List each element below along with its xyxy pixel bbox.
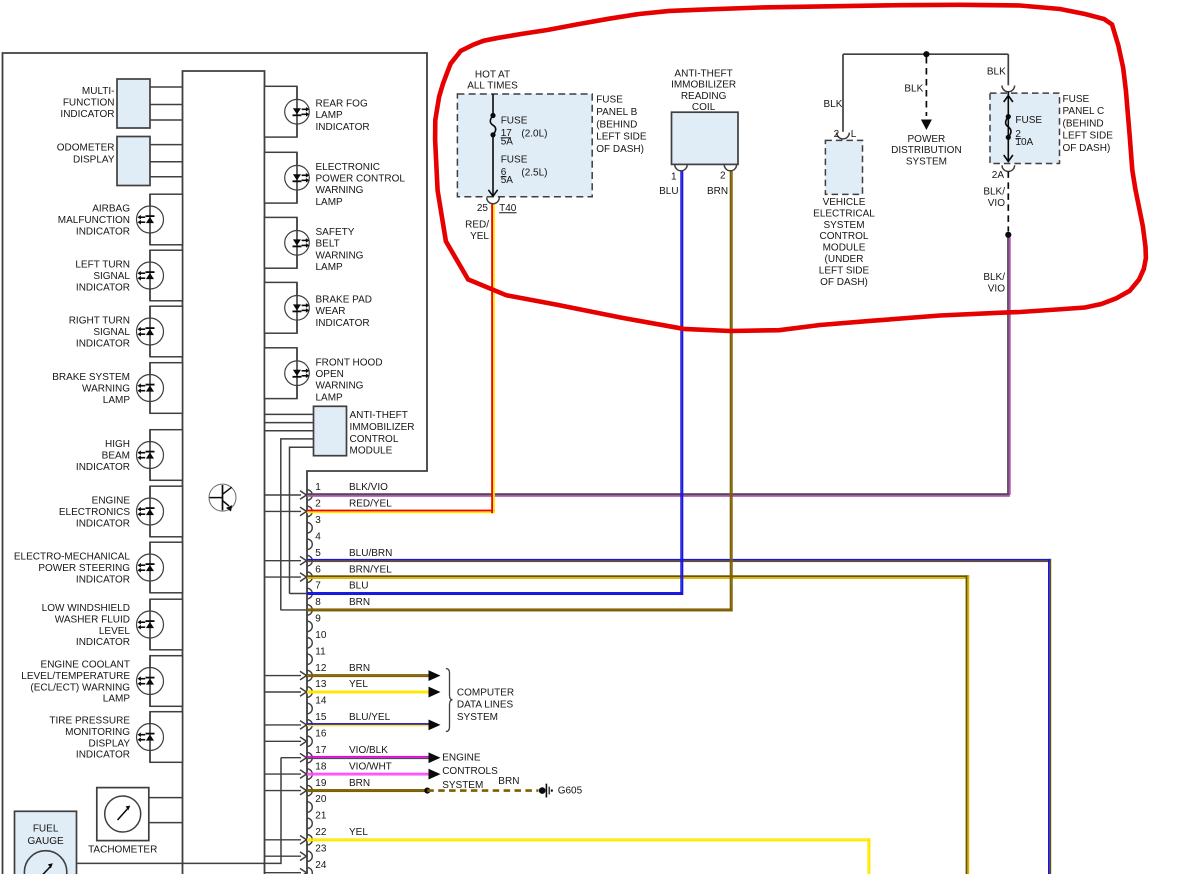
wire cluster to pin 22	[265, 839, 302, 841]
connector pin 2	[307, 506, 312, 517]
svg-text:TIRE PRESSUREMONITORINGDISPLAY: TIRE PRESSUREMONITORINGDISPLAYINDICATOR	[49, 716, 130, 761]
underline 17	[501, 137, 511, 139]
svg-text:1: 1	[315, 482, 321, 493]
svg-text:ANTI-THEFTIMMOBILIZERREADINGCO: ANTI-THEFTIMMOBILIZERREADINGCOIL	[671, 68, 736, 113]
fuse element panel C	[1006, 117, 1011, 138]
svg-text:FUSE: FUSE	[501, 155, 528, 166]
svg-text:ANTI-THEFTIMMOBILIZERCONTROLMO: ANTI-THEFTIMMOBILIZERCONTROLMODULE	[350, 410, 415, 457]
arrow engine controls pin 18	[429, 769, 441, 780]
wire inside fuse panel C	[1007, 92, 1009, 162]
svg-text:5: 5	[315, 548, 321, 559]
fuel gauge needle	[39, 867, 51, 874]
svg-text:9: 9	[315, 614, 321, 625]
wire RED/YEL vertical to fuse panel B	[491, 204, 493, 513]
fuse C bottom terminal	[1006, 135, 1011, 140]
wire BRN/YEL pin 6 horizontal	[307, 575, 969, 577]
safety belt warning lamp LED	[285, 231, 310, 256]
vehicle electrical system control module connector	[837, 133, 850, 139]
svg-text:24: 24	[315, 860, 327, 871]
front hood open warning lamp box	[265, 348, 298, 399]
left turn signal indicator box	[150, 250, 183, 301]
svg-text:LOW WINDSHIELDWASHER FLUIDLEVE: LOW WINDSHIELDWASHER FLUIDLEVELINDICATOR	[42, 603, 131, 648]
instrument cluster outer frame	[3, 53, 428, 874]
svg-text:YEL: YEL	[349, 827, 368, 838]
electronic power control warning lamp LED	[285, 165, 310, 190]
wire BRN vertical to coil pin 2	[730, 171, 732, 612]
svg-text:BRN: BRN	[349, 778, 370, 789]
svg-text:VEHICLEELECTRICALSYSTEMCONTROL: VEHICLEELECTRICALSYSTEMCONTROLMODULE(UND…	[813, 197, 875, 288]
svg-text:ELECTRONICPOWER CONTROLWARNING: ELECTRONICPOWER CONTROLWARNINGLAMP	[316, 162, 406, 208]
transistor symbol inside cluster	[209, 484, 236, 511]
airbag malfunction indicator LED	[137, 206, 164, 233]
wire cluster to pin 13	[265, 691, 302, 693]
svg-text:BLK: BLK	[904, 84, 923, 95]
wire cluster to pin 24	[265, 872, 302, 874]
connector pin 20	[307, 802, 312, 813]
arrow into pin 19	[300, 786, 307, 795]
arrow into pin 1	[300, 491, 307, 500]
wire anti-theft module to pin 7 rail	[290, 447, 314, 593]
svg-text:BLK/VIO: BLK/VIO	[349, 482, 388, 493]
high beam indicator box	[150, 430, 183, 481]
wire BRN pin 12	[307, 674, 429, 676]
wire rail to pin 8	[281, 609, 307, 611]
arrow into pin 12	[300, 671, 307, 680]
fuse panel B dashed box	[457, 94, 592, 197]
svg-text:ENGINE: ENGINE	[442, 753, 481, 764]
wire BRN pin 8 horizontal	[307, 608, 732, 610]
svg-text:19: 19	[315, 778, 327, 789]
wire YEL vertical right	[867, 838, 869, 874]
wire VIO/BLK pin 17	[307, 756, 429, 758]
wire cluster to pin 2	[265, 510, 302, 512]
connector pin 22	[307, 835, 312, 846]
svg-text:CONTROLS: CONTROLS	[442, 766, 498, 777]
svg-text:FUSE: FUSE	[1015, 115, 1042, 126]
wire odometer to cluster	[150, 176, 183, 178]
right turn signal indicator LED	[137, 318, 164, 345]
svg-text:BRAKE PADWEARINDICATOR: BRAKE PADWEARINDICATOR	[316, 295, 373, 329]
connector pin 16	[307, 736, 312, 747]
connector pin 6	[307, 572, 312, 583]
wire RED/YEL pin 2 horizontal	[307, 510, 495, 512]
wire BRN dashed to ground G605	[427, 789, 538, 792]
svg-text:TACHOMETER: TACHOMETER	[88, 845, 157, 856]
ground G605 symbol	[539, 787, 546, 794]
svg-text:HOT ATALL TIMES: HOT ATALL TIMES	[467, 69, 518, 91]
svg-text:SAFETYBELTWARNINGLAMP: SAFETYBELTWARNINGLAMP	[316, 227, 364, 273]
wire rail to pin 17	[281, 757, 301, 759]
fuse B top terminal	[490, 113, 495, 118]
wire BLK to vehicle electrical system control module	[842, 54, 844, 132]
wire inside fuse panel B lower	[492, 137, 494, 196]
svg-text:BLK: BLK	[823, 99, 842, 110]
connector pin 14	[307, 703, 312, 714]
svg-text:2A: 2A	[992, 170, 1005, 181]
svg-text:2: 2	[315, 499, 321, 510]
wire cluster to anti-theft module	[265, 430, 314, 432]
safety belt warning lamp box	[265, 217, 298, 268]
wire cluster to pin 6	[265, 576, 302, 578]
svg-text:MULTI-FUNCTIONINDICATOR: MULTI-FUNCTIONINDICATOR	[60, 86, 114, 120]
tachometer needle	[118, 809, 128, 820]
arrow into pin 24	[300, 868, 307, 874]
svg-text:BLU: BLU	[349, 581, 368, 592]
svg-text:13: 13	[315, 679, 327, 690]
svg-text:5A: 5A	[501, 137, 514, 148]
arrow computer data lines pin 15	[429, 719, 441, 730]
wire BLK to fuse panel C	[1007, 54, 1009, 85]
multi-function indicator box	[117, 79, 150, 128]
arrow into pin 2	[300, 507, 307, 516]
svg-text:FRONT HOODOPENWARNINGLAMP: FRONT HOODOPENWARNINGLAMP	[316, 357, 383, 403]
wire odometer to cluster	[150, 161, 183, 163]
svg-text:15: 15	[315, 712, 327, 723]
connector pin 8	[307, 605, 312, 616]
engine electronics indicator box	[150, 486, 183, 537]
svg-text:BRN/YEL: BRN/YEL	[349, 564, 392, 575]
wire tachometer to cluster	[149, 797, 183, 799]
wire cluster to anti-theft module	[265, 422, 314, 424]
odometer display box	[117, 137, 150, 186]
wire cluster to pin 18	[265, 773, 302, 775]
svg-text:5A: 5A	[501, 175, 514, 186]
electro-mechanical power steering indicator LED	[137, 554, 164, 581]
wire inside fuse panel B	[492, 94, 494, 113]
right turn signal indicator box	[150, 306, 183, 357]
svg-text:YEL: YEL	[349, 679, 368, 690]
connector pin 19	[307, 785, 312, 796]
brake pad wear indicator box	[265, 282, 298, 333]
wire cluster to pin 1	[265, 494, 302, 496]
red freehand highlight circle	[435, 5, 1146, 331]
svg-text:VIO/WHT: VIO/WHT	[349, 761, 392, 772]
wire BLK/VIO vertical to fuse panel C	[1007, 237, 1009, 495]
low windshield washer fluid level indicator box	[150, 599, 183, 650]
arrow up inside fuse panel C	[1004, 96, 1013, 103]
arrow into pin 16	[300, 737, 307, 746]
svg-text:(2.5L): (2.5L)	[521, 168, 547, 179]
wire anti-theft module to pin 8 rail	[281, 439, 314, 610]
instrument cluster inner tall box	[183, 71, 265, 874]
wire BLU pin 7 horizontal	[307, 592, 683, 594]
fuse panel C connector top	[1002, 86, 1015, 92]
svg-text:SYSTEM: SYSTEM	[442, 780, 483, 791]
computer data lines brace	[446, 669, 453, 732]
svg-text:ODOMETERDISPLAY: ODOMETERDISPLAY	[57, 143, 115, 166]
wire BLU/BRN pin 5 horizontal	[307, 559, 1051, 561]
arrow down inside fuse panel C	[1004, 155, 1013, 162]
wire YEL pin 22 horizontal	[307, 838, 870, 840]
connector pin 15	[307, 720, 312, 731]
connector pin 13	[307, 687, 312, 698]
wire cluster to anti-theft module	[265, 413, 314, 415]
svg-text:1: 1	[671, 172, 677, 183]
wire YEL pin 13	[307, 691, 429, 693]
wire rail to pin 7	[290, 593, 308, 595]
tachometer box	[97, 788, 149, 841]
svg-text:11: 11	[315, 646, 326, 657]
svg-text:20: 20	[315, 794, 327, 805]
wire cluster to pin 23	[265, 855, 302, 857]
svg-text:L: L	[851, 129, 857, 140]
svg-text:FUSEPANEL B(BEHINDLEFT SIDEOF: FUSEPANEL B(BEHINDLEFT SIDEOF DASH)	[596, 95, 647, 155]
tire pressure monitoring display indicator box	[150, 712, 183, 763]
underline 2	[1015, 138, 1021, 140]
front hood open warning lamp LED	[285, 361, 310, 386]
engine electronics indicator LED	[137, 498, 164, 525]
svg-text:BLK/VIO: BLK/VIO	[983, 186, 1005, 209]
anti-theft immobilizer control module box	[314, 406, 347, 455]
svg-text:ENGINEELECTRONICSINDICATOR: ENGINEELECTRONICSINDICATOR	[59, 496, 130, 530]
rear fog lamp indicator LED	[285, 99, 310, 124]
wire cluster to pin 16	[265, 740, 302, 742]
wire cluster to pin 15	[265, 724, 302, 726]
svg-text:RIGHT TURNSIGNALINDICATOR: RIGHT TURNSIGNALINDICATOR	[69, 316, 131, 350]
svg-text:BRN: BRN	[498, 776, 519, 787]
junction splice on pin 19 wire	[424, 787, 430, 793]
connector pin 11	[307, 654, 312, 665]
wire fuel gauge to pin 17 rail	[77, 758, 282, 864]
svg-text:3: 3	[315, 515, 321, 526]
wire BRN pin 19	[307, 789, 427, 791]
svg-text:10A: 10A	[1015, 137, 1033, 148]
brake pad wear indicator LED	[285, 296, 310, 321]
svg-text:BLU: BLU	[659, 186, 678, 197]
electro-mechanical power steering indicator box	[150, 542, 183, 593]
svg-text:RED/YEL: RED/YEL	[465, 220, 489, 242]
svg-text:2: 2	[834, 129, 840, 140]
connector pin 3	[307, 523, 312, 534]
wire BLU/BRN vertical right	[1048, 559, 1050, 874]
svg-text:23: 23	[315, 843, 327, 854]
connector pin 12	[307, 670, 312, 681]
svg-text:BRN: BRN	[349, 597, 370, 608]
fuse C top terminal	[1006, 114, 1011, 119]
connector pin 9	[307, 621, 312, 632]
svg-text:RED/YEL: RED/YEL	[349, 499, 392, 510]
wire cluster to pin 5	[265, 560, 302, 562]
coil connector pin 1	[675, 165, 687, 171]
wire multi-function to cluster	[150, 86, 183, 88]
wire BLK top bus	[843, 53, 1008, 55]
arrow to power distribution system	[921, 120, 932, 131]
arrow engine controls pin 17	[429, 752, 441, 763]
svg-text:ENGINE COOLANTLEVEL/TEMPERATUR: ENGINE COOLANTLEVEL/TEMPERATURE(ECL/ECT)…	[21, 660, 130, 705]
brake system warning lamp box	[150, 363, 183, 414]
connector pin 7	[307, 588, 312, 599]
svg-text:22: 22	[315, 827, 327, 838]
underline 6	[501, 176, 507, 178]
arrow out of fuse panel B	[488, 190, 497, 197]
svg-text:FUSEPANEL C(BEHINDLEFT SIDEOF: FUSEPANEL C(BEHINDLEFT SIDEOF DASH)	[1063, 94, 1114, 154]
svg-text:6: 6	[315, 564, 321, 575]
splice on BLK/VIO wire	[1005, 232, 1011, 238]
svg-text:16: 16	[315, 729, 327, 740]
svg-text:4: 4	[315, 532, 321, 543]
svg-text:21: 21	[315, 811, 327, 822]
brake system warning lamp LED	[137, 375, 164, 402]
high beam indicator LED	[137, 442, 164, 469]
svg-text:REAR FOGLAMPINDICATOR: REAR FOGLAMPINDICATOR	[316, 98, 370, 132]
wire tachometer to cluster	[149, 822, 183, 824]
arrow into pin 18	[300, 770, 307, 779]
svg-text:2: 2	[720, 171, 726, 182]
svg-text:COMPUTERDATA LINESSYSTEM: COMPUTERDATA LINESSYSTEM	[457, 687, 514, 722]
arrow into pin 15	[300, 721, 307, 730]
svg-text:FUSE: FUSE	[501, 116, 528, 127]
wire BLK dashed to power distribution system	[925, 57, 927, 116]
engine coolant level/temperature warning lamp LED	[137, 668, 164, 695]
svg-text:12: 12	[315, 663, 327, 674]
svg-text:LEFT TURNSIGNALINDICATOR: LEFT TURNSIGNALINDICATOR	[75, 260, 130, 294]
rear fog lamp indicator box	[265, 86, 298, 137]
fuse B bottom terminal	[490, 132, 495, 137]
arrow into pin 17	[300, 753, 307, 762]
svg-text:POWERDISTRIBUTIONSYSTEM: POWERDISTRIBUTIONSYSTEM	[891, 134, 962, 168]
svg-text:10: 10	[315, 630, 327, 641]
arrow into pin 6	[300, 573, 307, 582]
junction on BLK bus	[923, 51, 929, 57]
wire multi-function to cluster	[150, 104, 183, 106]
tire pressure monitoring display indicator LED	[137, 724, 164, 751]
svg-text:25: 25	[477, 203, 489, 214]
arrow into pin 5	[300, 556, 307, 565]
svg-text:8: 8	[315, 597, 321, 608]
coil connector pin 2	[724, 165, 736, 171]
svg-text:14: 14	[315, 696, 327, 707]
svg-text:BRN: BRN	[707, 186, 728, 197]
arrow computer data lines pin 12	[429, 670, 441, 681]
svg-text:18: 18	[315, 761, 327, 772]
svg-text:BLU/BRN: BLU/BRN	[349, 548, 392, 559]
connector pin 21	[307, 818, 312, 829]
svg-text:BLU/YEL: BLU/YEL	[349, 712, 391, 723]
left turn signal indicator LED	[137, 262, 164, 289]
connector T40 at fuse panel B	[487, 198, 500, 204]
wire VIO/WHT pin 18	[307, 773, 429, 774]
wire BLU/YEL pin 15	[307, 723, 429, 725]
arrow into pin 13	[300, 688, 307, 697]
engine coolant level/temperature warning lamp box	[150, 656, 183, 707]
connector pin 24	[307, 867, 312, 874]
connector pin 18	[307, 769, 312, 780]
wire BLK/VIO dashed below fuse panel C	[1007, 171, 1009, 231]
arrow computer data lines pin 13	[429, 687, 441, 698]
fuse panel C dashed box	[990, 93, 1060, 163]
svg-text:ELECTRO-MECHANICALPOWER STEERI: ELECTRO-MECHANICALPOWER STEERINGINDICATO…	[14, 552, 131, 586]
underline T40	[499, 212, 516, 214]
wire cluster to pin 12	[265, 675, 302, 677]
wire multi-function to cluster	[150, 119, 183, 121]
svg-text:BRN: BRN	[349, 663, 370, 674]
connector pin 1	[307, 490, 312, 501]
anti-theft immobilizer reading coil box	[672, 112, 739, 164]
svg-text:AIRBAGMALFUNCTIONINDICATOR: AIRBAGMALFUNCTIONINDICATOR	[58, 204, 130, 238]
connector pin 5	[307, 555, 312, 566]
connector pin 17	[307, 752, 312, 763]
svg-text:HIGHBEAMINDICATOR: HIGHBEAMINDICATOR	[76, 439, 130, 473]
connector pin 4	[307, 539, 312, 550]
electronic power control warning lamp box	[265, 152, 298, 203]
svg-text:(2.0L): (2.0L)	[521, 129, 547, 140]
low windshield washer fluid level indicator LED	[137, 611, 164, 638]
svg-text:7: 7	[315, 581, 321, 592]
fuse panel C connector bottom	[1002, 165, 1015, 171]
arrow into pin 23	[300, 852, 307, 861]
arrow into pin 22	[300, 836, 307, 845]
svg-text:VIO/BLK: VIO/BLK	[349, 745, 388, 756]
wire BRN/YEL vertical right	[966, 575, 968, 874]
svg-text:BLK/VIO: BLK/VIO	[983, 272, 1005, 295]
svg-text:BRAKE SYSTEMWARNINGLAMP: BRAKE SYSTEMWARNINGLAMP	[52, 372, 130, 406]
wire cluster to pin 19	[265, 790, 302, 792]
svg-text:BLK: BLK	[987, 67, 1006, 78]
wire odometer to cluster	[150, 144, 183, 146]
connector pin 23	[307, 851, 312, 862]
svg-text:G605: G605	[558, 785, 583, 796]
vehicle electrical system control module dashed box	[825, 140, 862, 194]
airbag malfunction indicator box	[150, 194, 183, 245]
connector pin 10	[307, 638, 312, 649]
svg-text:17: 17	[315, 745, 327, 756]
fuse element panel B	[490, 116, 495, 135]
fuel gauge box	[15, 811, 77, 874]
wire BLU vertical to coil pin 1	[680, 171, 682, 595]
wire BLK/VIO pin 1 horizontal	[307, 493, 1010, 495]
